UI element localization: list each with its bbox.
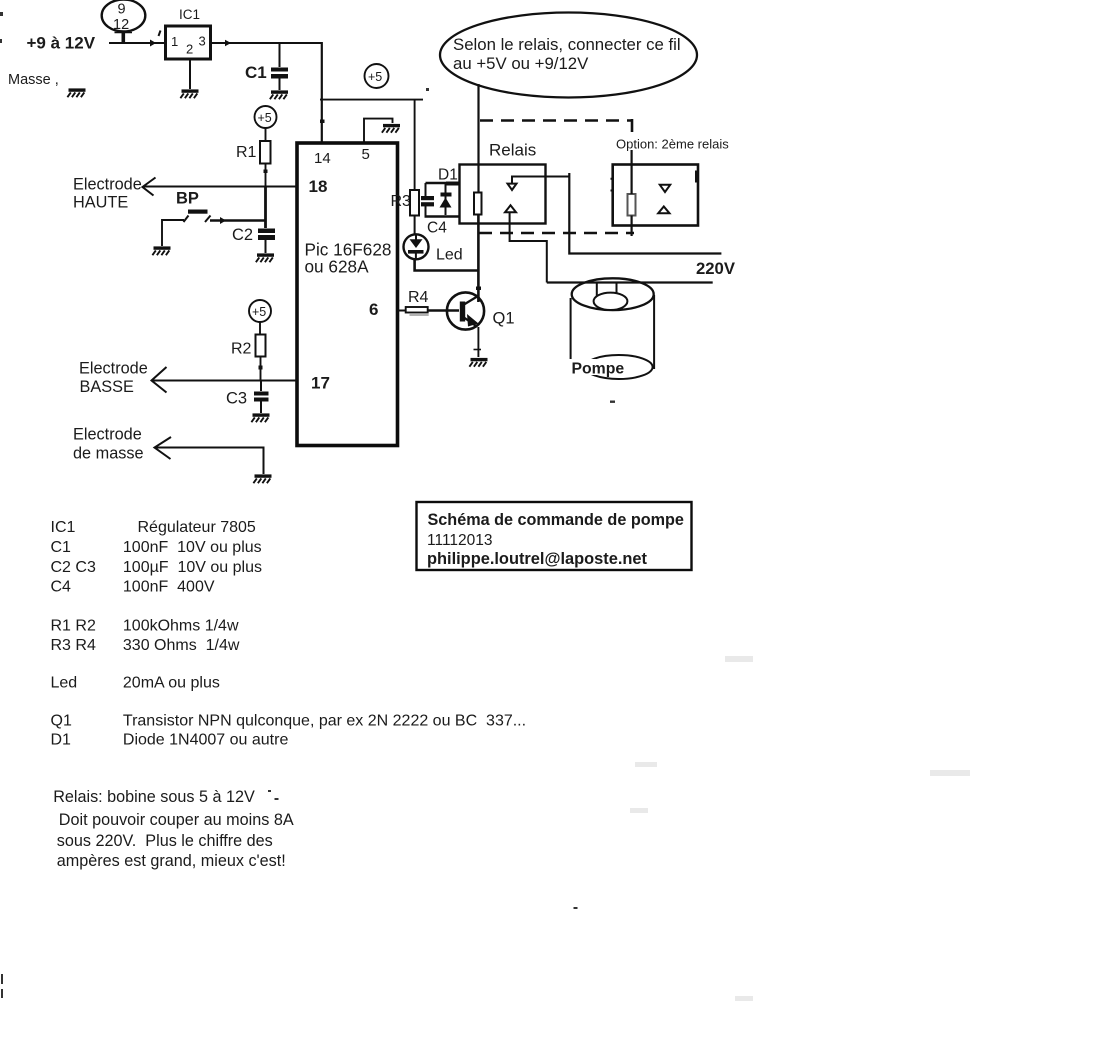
wire C2 to ground [265, 240, 267, 253]
svg-text:Doit pouvoir couper au moins 8: Doit pouvoir couper au moins 8A [59, 811, 294, 829]
parts list [51, 519, 527, 749]
svg-text:5: 5 [362, 146, 370, 163]
svg-text:+9 à 12V: +9 à 12V [27, 34, 96, 53]
dashed wire bottom [479, 232, 634, 235]
label Electrode de masse [73, 426, 144, 463]
svg-text:Q1: Q1 [51, 713, 72, 730]
relay contact bottom [505, 205, 547, 282]
svg-text:18: 18 [309, 177, 328, 196]
+5 netlabel top [365, 64, 389, 88]
ground Q1 [469, 358, 487, 367]
svg-text:Electrode: Electrode [73, 176, 142, 194]
option contact bottom [658, 207, 669, 214]
svg-text:ampères est grand, mieux c'est: ampères est grand, mieux c'est! [57, 852, 286, 870]
svg-text:9: 9 [118, 2, 126, 18]
svg-text:C1: C1 [51, 539, 72, 556]
svg-text:R4: R4 [408, 289, 429, 306]
arrow electrode basse [152, 367, 167, 393]
+5 netlabel R2 [249, 300, 271, 322]
relay coil K1 [474, 193, 482, 215]
capacitor C3 [226, 381, 269, 408]
capacitor C2 [232, 226, 275, 244]
wire option coil bottom [630, 216, 632, 237]
svg-text:R1: R1 [236, 144, 257, 161]
svg-text:330 Ohms 1/4w: 330 Ohms 1/4w [123, 637, 240, 654]
ground electrode de masse [253, 474, 271, 483]
svg-text:ou 628A: ou 628A [305, 257, 370, 277]
svg-text:+5: +5 [258, 111, 272, 125]
svg-text:12: 12 [113, 17, 129, 33]
power source circle 9/12 [102, 0, 146, 33]
resistor R1 [236, 141, 271, 164]
svg-text:BASSE: BASSE [80, 378, 134, 396]
wire coil to Q1 collector [476, 215, 481, 303]
svg-text:Régulateur 7805: Régulateur 7805 [138, 519, 256, 536]
svg-text:3: 3 [199, 34, 206, 49]
svg-text:Electrode: Electrode [79, 360, 148, 378]
wire R1 to node 18 [264, 164, 268, 187]
svg-text:C2 C3: C2 C3 [51, 559, 96, 576]
svg-text:Schéma de commande de pompe: Schéma de commande de pompe [428, 511, 684, 529]
svg-text:14: 14 [314, 150, 331, 167]
svg-text:Q1: Q1 [493, 310, 515, 328]
LED [404, 234, 463, 263]
svg-text:de masse: de masse [73, 445, 144, 463]
svg-text:IC1: IC1 [179, 7, 200, 22]
label Pompe [569, 359, 626, 378]
note relais text [53, 788, 294, 870]
svg-text:Selon le relais, connecter ce: Selon le relais, connecter ce fil [453, 35, 681, 54]
capacitor C1 [245, 63, 288, 82]
label Electrode HAUTE [73, 176, 142, 212]
svg-text:Transistor NPN qulconque, par: Transistor NPN qulconque, par ex 2N 2222… [123, 713, 526, 730]
option relay box [611, 165, 699, 226]
svg-text:Masse ,: Masse , [8, 72, 59, 88]
wire relay feed from note [477, 84, 479, 193]
svg-text:17: 17 [311, 374, 330, 393]
svg-text:Relais: bobine sous 5 à 12V: Relais: bobine sous 5 à 12V [53, 788, 255, 806]
svg-text:100kOhms 1/4w: 100kOhms 1/4w [123, 618, 239, 635]
wire 220V top [569, 173, 721, 254]
svg-text:D1: D1 [51, 732, 72, 749]
wire +5 to R1 [265, 128, 267, 141]
svg-text:100nF 400V: 100nF 400V [123, 579, 215, 596]
resistor R4 [398, 289, 460, 315]
wire +5 to R2 [259, 322, 261, 335]
ground pin5 [382, 124, 400, 133]
svg-text:Diode 1N4007 ou autre: Diode 1N4007 ou autre [123, 732, 289, 749]
svg-text:Led: Led [51, 675, 78, 692]
ground IC1 [180, 89, 198, 98]
wire node 18 to C2 [264, 186, 267, 228]
option relay coil [628, 194, 636, 216]
diode D1 and capacitor C4 snubber [421, 167, 460, 237]
svg-text:2: 2 [186, 42, 193, 57]
tiny marks [0, 12, 615, 998]
svg-text:+5: +5 [252, 305, 266, 319]
push button BP [176, 190, 211, 223]
svg-text:R3 R4: R3 R4 [51, 637, 96, 654]
svg-text:1: 1 [171, 34, 178, 49]
wire electrode de masse [155, 448, 264, 475]
svg-text:100µF 10V ou plus: 100µF 10V ou plus [123, 559, 262, 576]
wire Q1 emitter to ground [474, 327, 482, 357]
resistor R2 [231, 335, 266, 358]
relay box Relais [460, 141, 546, 224]
svg-text:220V: 220V [696, 259, 736, 278]
option contact top [660, 185, 670, 192]
svg-text:HAUTE: HAUTE [73, 194, 128, 212]
battery tick below 9/12 circle [115, 33, 133, 45]
svg-text:C2: C2 [232, 226, 253, 244]
wire pin5 to ground [364, 119, 393, 143]
svg-text:R1 R2: R1 R2 [51, 618, 96, 635]
PIC 16F628 box U1 [297, 143, 398, 446]
pump wires [597, 283, 617, 302]
wire +9V input [109, 31, 165, 47]
svg-text:BP: BP [176, 190, 199, 208]
ground C1 [270, 90, 288, 99]
svg-text:6: 6 [369, 300, 378, 319]
title box [417, 502, 692, 570]
svg-text:20mA ou plus: 20mA ou plus [123, 675, 220, 692]
svg-text:Electrode: Electrode [73, 426, 142, 444]
regulator IC1 [166, 7, 211, 59]
svg-text:philippe.loutrel@laposte.net: philippe.loutrel@laposte.net [427, 550, 648, 568]
transistor Q1 [447, 292, 515, 329]
wire LED return to collector node [415, 260, 479, 271]
svg-text:D1: D1 [438, 167, 458, 184]
svg-text:Relais: Relais [489, 141, 536, 160]
wire R2 to node 17 [259, 357, 263, 381]
svg-text:C4: C4 [51, 579, 72, 596]
ground Masse [67, 88, 85, 97]
wire rail to pin 14 [320, 42, 325, 143]
wire R3 feed drop [414, 100, 416, 190]
svg-text:Led: Led [436, 247, 463, 264]
svg-text:Option: 2ème relais: Option: 2ème relais [616, 137, 729, 152]
wire C1 to ground [279, 79, 281, 91]
resistor R3 [391, 190, 420, 216]
relay contact top [508, 177, 570, 191]
svg-text:au +5V ou +9/12V: au +5V ou +9/12V [453, 54, 589, 73]
svg-text:Pompe: Pompe [572, 361, 625, 378]
pump body [571, 278, 655, 379]
wire +5 branch horizontal [320, 99, 423, 101]
wire BP left to ground [162, 220, 184, 246]
wire BP right to node [210, 217, 266, 224]
ground C3 [251, 413, 269, 422]
note ellipse Selon le relais [440, 13, 697, 98]
svg-text:R2: R2 [231, 341, 252, 358]
svg-text:C1: C1 [245, 63, 267, 82]
wire C1 drop [279, 43, 281, 67]
svg-text:11112013: 11112013 [427, 532, 493, 549]
wire electrode basse / pin 17 [152, 380, 297, 382]
wire electrode haute / pin 18 [144, 186, 298, 188]
svg-text:C4: C4 [427, 220, 447, 237]
ground C2 [256, 253, 274, 262]
svg-text:sous 220V. Plus le chiffre de: sous 220V. Plus le chiffre des [57, 832, 273, 850]
svg-text:+5: +5 [368, 70, 382, 84]
arrow electrode haute [143, 178, 156, 196]
wire IC1 pin2 to ground [189, 59, 191, 89]
+5 netlabel R1 [255, 106, 277, 128]
dashed corner down [631, 119, 634, 132]
wire option coil feed [630, 150, 632, 194]
wire C3 to ground [260, 402, 262, 414]
wire 220V bottom to pump [547, 281, 713, 283]
arrow electrode de masse [155, 437, 172, 459]
wire IC1 output +5V [210, 40, 322, 46]
svg-text:C3: C3 [226, 390, 247, 408]
ground BP [152, 246, 170, 255]
svg-text:R3: R3 [391, 193, 412, 210]
svg-text:100nF 10V ou plus: 100nF 10V ou plus [123, 539, 262, 556]
wire R3 to LED [414, 216, 416, 235]
svg-text:IC1: IC1 [51, 519, 76, 536]
dashed wire top [480, 119, 632, 122]
label Electrode BASSE [79, 360, 148, 397]
